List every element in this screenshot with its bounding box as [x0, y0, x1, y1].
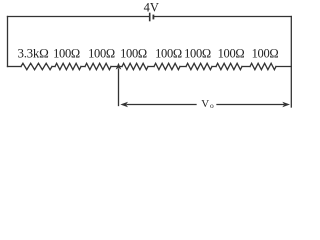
wire R1-R2: [52, 66, 55, 68]
node A tap arrowhead pointing up: [116, 63, 122, 70]
svg-text:o: o: [210, 101, 214, 110]
svg-text:100Ω: 100Ω: [184, 47, 211, 61]
wire R6-R7: [212, 66, 216, 68]
wire Vo arrow left segment: [127, 104, 196, 106]
wire R7-R8: [242, 66, 250, 68]
resistor R6 100Ohm: [186, 63, 212, 69]
svg-text:V: V: [201, 98, 209, 110]
wire top-right from battery to right corner: [154, 16, 291, 18]
wire R5-R6: [180, 66, 186, 68]
wire left vertical side: [7, 17, 9, 67]
Vo arrowhead right: [282, 102, 290, 107]
resistor R1 3.3kOhm: [21, 63, 52, 69]
svg-text:100Ω: 100Ω: [120, 47, 147, 61]
resistor R2 100Ohm: [55, 63, 81, 69]
wire R4-R5: [148, 66, 154, 68]
svg-text:4V: 4V: [144, 0, 159, 14]
wire bottom from left corner to R1: [8, 66, 22, 68]
svg-text:100Ω: 100Ω: [88, 47, 115, 61]
resistor R7 100Ohm: [216, 63, 242, 69]
svg-text:100Ω: 100Ω: [252, 47, 279, 61]
wire R2-R3: [81, 66, 85, 68]
battery V1 short plate: [152, 15, 154, 20]
resistor R4 100Ohm: [122, 63, 148, 69]
wire right vertical side: [290, 17, 292, 108]
svg-text:100Ω: 100Ω: [218, 47, 245, 61]
svg-text:3.3kΩ: 3.3kΩ: [18, 46, 49, 61]
svg-text:100Ω: 100Ω: [53, 47, 80, 61]
wire R8 to right corner: [276, 66, 291, 68]
Vo arrowhead left: [120, 102, 128, 107]
svg-text:100Ω: 100Ω: [155, 47, 182, 61]
resistor R3 100Ohm: [85, 63, 111, 69]
resistor R8 100Ohm: [250, 63, 276, 69]
battery V1 long plate: [149, 13, 151, 22]
resistor R5 100Ohm: [154, 63, 180, 69]
wire tap vertical from node A down: [118, 69, 120, 106]
wire R3-R4 with tap node: [111, 66, 122, 68]
wire top-left from left corner to battery: [8, 16, 149, 18]
wire Vo arrow right segment: [217, 104, 284, 106]
